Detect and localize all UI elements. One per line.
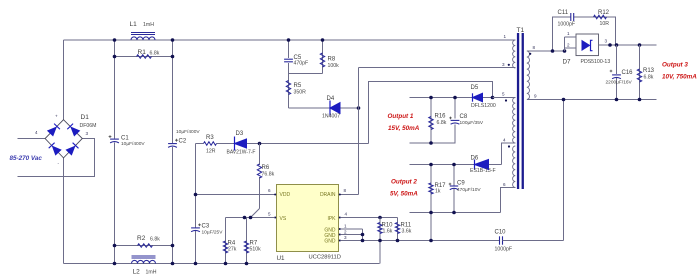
- svg-text:D5: D5: [471, 85, 479, 91]
- svg-text:VDD: VDD: [280, 192, 291, 198]
- wire GND pin stubs: [341, 228, 363, 230]
- svg-text:9: 9: [534, 94, 537, 99]
- svg-text:8: 8: [344, 188, 347, 193]
- node GND bus junctions: [378, 239, 382, 243]
- svg-text:C1: C1: [121, 136, 129, 142]
- svg-text:6: 6: [503, 182, 506, 187]
- svg-text:DFLS1200: DFLS1200: [471, 103, 496, 109]
- svg-text:470pF: 470pF: [294, 61, 309, 67]
- svg-text:100µF/35V: 100µF/35V: [460, 120, 484, 126]
- svg-text:1000pF: 1000pF: [558, 22, 576, 28]
- bridge diode NW: [47, 126, 57, 136]
- wire aux sense riser: [369, 82, 493, 144]
- wire output1 plus rail: [410, 97, 473, 99]
- wire VDD node vertical C3: [195, 144, 197, 228]
- svg-text:6.8k: 6.8k: [150, 51, 160, 57]
- svg-text:15V, 50mA: 15V, 50mA: [388, 125, 420, 132]
- svg-text:3: 3: [86, 131, 89, 136]
- svg-text:Output 3: Output 3: [662, 62, 688, 69]
- svg-text:R6: R6: [262, 165, 270, 171]
- svg-text:R2: R2: [137, 235, 146, 242]
- svg-text:D6: D6: [471, 156, 479, 162]
- svg-text:1: 1: [567, 31, 570, 36]
- svg-text:L1: L1: [130, 21, 138, 28]
- resistor R7: [244, 241, 248, 253]
- svg-text:85-270 Vac: 85-270 Vac: [10, 155, 43, 162]
- capacitor C8: [454, 98, 456, 119]
- svg-text:10µF/400V: 10µF/400V: [121, 141, 145, 147]
- resistor R5: [286, 81, 290, 95]
- svg-text:D3: D3: [236, 131, 244, 137]
- svg-text:C3: C3: [202, 224, 210, 230]
- resistor R10: [379, 218, 381, 264]
- svg-text:470µF/10V: 470µF/10V: [457, 187, 481, 193]
- wire B+ top rail: [64, 39, 516, 41]
- diode D5 DFLS1200: [473, 93, 483, 101]
- node output3 junctions: [615, 98, 619, 102]
- resistor R17: [430, 165, 432, 241]
- wire VDD row to U1: [196, 194, 277, 196]
- transformer winding pins 4-6: [513, 146, 516, 188]
- svg-text:C11: C11: [558, 10, 569, 16]
- wire secondary ground riser: [563, 100, 565, 241]
- resistor R6: [257, 164, 261, 178]
- svg-text:3.6k: 3.6k: [402, 229, 412, 235]
- svg-text:510k: 510k: [250, 247, 262, 253]
- wire R2 bypass rail: [115, 245, 173, 247]
- wire bridge - vertical to bottom rail: [63, 158, 65, 264]
- svg-text:U1: U1: [277, 255, 286, 262]
- node aux sense - pin5 junction: [491, 96, 495, 100]
- wire output2 return rail: [410, 212, 501, 214]
- wire AC input line 1: [18, 138, 46, 140]
- svg-text:100k: 100k: [328, 63, 340, 69]
- svg-text:10R: 10R: [600, 21, 610, 27]
- transformer primary winding pins 1-3: [513, 40, 516, 68]
- svg-text:4: 4: [503, 138, 506, 143]
- diode D3 BAV21W-7-F: [235, 139, 247, 148]
- wire D7 pins 1 2: [565, 36, 577, 38]
- wire C2 branch vertical: [172, 40, 174, 143]
- wire bridge + vertical: [63, 40, 65, 120]
- capacitor C3: [191, 227, 200, 229]
- svg-text:1.6k: 1.6k: [383, 229, 393, 235]
- svg-text:350R: 350R: [294, 90, 307, 96]
- svg-text:3: 3: [502, 62, 505, 67]
- svg-text:D1: D1: [81, 114, 90, 121]
- resistor R16: [430, 98, 432, 144]
- svg-text:1N4007: 1N4007: [322, 114, 340, 120]
- svg-text:1000pF: 1000pF: [495, 247, 513, 253]
- svg-text:DF06M: DF06M: [80, 123, 97, 129]
- svg-text:3: 3: [344, 235, 347, 240]
- svg-text:4: 4: [345, 212, 348, 217]
- node junctions on input rails: [113, 38, 117, 42]
- svg-text:C16: C16: [622, 70, 634, 76]
- wire C1 branch vertical: [114, 40, 116, 138]
- svg-text:4: 4: [35, 130, 38, 135]
- diode D7 PDS5100-13 package: [576, 34, 599, 56]
- diode D4 1N4007: [330, 103, 340, 114]
- svg-text:5: 5: [268, 212, 271, 217]
- svg-text:10µF/400V: 10µF/400V: [176, 129, 200, 135]
- wire drain vertical to transformer pin 3: [358, 68, 360, 195]
- svg-text:GND: GND: [324, 239, 336, 245]
- svg-text:IPK: IPK: [327, 216, 336, 222]
- svg-text:10µF/25V: 10µF/25V: [202, 230, 224, 236]
- svg-text:T1: T1: [517, 27, 525, 34]
- svg-text:6.8k: 6.8k: [437, 120, 447, 126]
- svg-text:R8: R8: [328, 57, 336, 63]
- wire D7 pin 3 output3 plus rail: [599, 44, 657, 46]
- transformer aux winding pins 5-4: [513, 98, 516, 144]
- capacitor C2: [168, 143, 177, 145]
- node ground rail junctions: [194, 262, 198, 266]
- bridge diode NE: [70, 126, 80, 136]
- capacitor C9: [453, 165, 455, 186]
- svg-text:D7: D7: [563, 59, 572, 66]
- svg-text:R3: R3: [206, 135, 214, 141]
- svg-text:R5: R5: [294, 83, 302, 89]
- transformer core: [517, 33, 519, 189]
- svg-text:6.8k: 6.8k: [644, 75, 654, 81]
- resistor R13: [639, 45, 641, 100]
- wire AC input line 2: [18, 139, 95, 177]
- svg-text:2: 2: [567, 43, 570, 48]
- U1 pin connection ticks: [274, 194, 276, 196]
- wire R6 branch with diagonal to VS: [259, 144, 261, 166]
- svg-text:8: 8: [533, 45, 536, 50]
- wire VS row: [226, 217, 275, 219]
- svg-text:D4: D4: [327, 96, 335, 102]
- resistor R4: [223, 241, 227, 253]
- svg-text:1mH: 1mH: [146, 270, 157, 276]
- wire R1 bypass rail: [115, 56, 173, 58]
- svg-text:6: 6: [268, 188, 271, 193]
- wire IPK row: [341, 217, 398, 219]
- transformer secondary winding pins 8-9: [527, 51, 530, 99]
- svg-text:VS: VS: [280, 216, 287, 222]
- resistor R1: [137, 55, 152, 59]
- node output2 junctions: [429, 163, 433, 167]
- svg-text:1: 1: [504, 34, 507, 39]
- svg-text:1: 1: [344, 224, 347, 229]
- node R6 tap junction: [258, 142, 262, 146]
- svg-text:C2: C2: [179, 139, 187, 145]
- capacitor C11: [570, 13, 572, 21]
- svg-text:76.8k: 76.8k: [262, 172, 275, 178]
- resistor R3: [204, 142, 217, 146]
- resistor R12: [594, 15, 607, 19]
- inductor L2: [132, 260, 156, 263]
- bridge diode SE: [66, 146, 76, 156]
- svg-text:10V, 750mA: 10V, 750mA: [662, 74, 697, 81]
- svg-text:12R: 12R: [206, 149, 216, 155]
- svg-text:R13: R13: [643, 68, 655, 74]
- wire C5 R8 snubber branch: [288, 40, 290, 58]
- wire output2 plus rail D6 row: [410, 164, 475, 166]
- svg-text:C9: C9: [457, 181, 465, 187]
- svg-text:C8: C8: [460, 114, 468, 120]
- svg-text:C10: C10: [495, 230, 507, 236]
- capacitor C5: [284, 58, 293, 60]
- wire R7 branch: [246, 218, 248, 264]
- svg-text:ES1B-13-F: ES1B-13-F: [470, 168, 496, 174]
- op-amp U1 UCC28911D body: [277, 185, 339, 252]
- svg-text:1mH: 1mH: [143, 22, 154, 28]
- svg-text:+: +: [55, 114, 58, 119]
- svg-text:1k: 1k: [435, 189, 441, 195]
- wire D4 row: [289, 107, 331, 109]
- resistor R8: [320, 53, 324, 67]
- svg-text:5V, 50mA: 5V, 50mA: [390, 191, 418, 198]
- capacitor C1: [110, 138, 119, 140]
- wire VDD feed row R3 D3: [196, 143, 204, 145]
- svg-text:6.8k: 6.8k: [150, 237, 160, 243]
- node drain-snubber junction: [357, 106, 361, 110]
- svg-text:2: 2: [344, 229, 347, 234]
- capacitor C16: [616, 45, 618, 74]
- capacitor C10: [499, 236, 501, 244]
- bridge rectifier D1 DF06M: [45, 120, 82, 158]
- svg-text:Output 1: Output 1: [388, 113, 414, 120]
- svg-text:3: 3: [605, 39, 608, 44]
- svg-text:DRAIN: DRAIN: [320, 192, 336, 198]
- resistor R2: [138, 244, 153, 248]
- resistor R11: [397, 218, 399, 241]
- bridge diode SW: [52, 146, 62, 156]
- wire output1 return rail: [410, 124, 456, 143]
- wire C11 R12 snubber loop: [553, 17, 616, 51]
- wire bottom rail: [64, 263, 380, 265]
- svg-text:Output 2: Output 2: [391, 179, 417, 186]
- svg-text:L2: L2: [133, 269, 141, 276]
- inductor L1: [131, 37, 155, 40]
- svg-text:BAV21W-7-F: BAV21W-7-F: [227, 150, 256, 156]
- svg-text:5: 5: [502, 92, 505, 97]
- svg-text:R16: R16: [435, 114, 447, 120]
- wire DRAIN stub: [339, 194, 359, 196]
- svg-text:R1: R1: [138, 49, 147, 56]
- diode D6 ES1B-13-F: [475, 160, 489, 170]
- svg-text:2200µF/16V: 2200µF/16V: [606, 80, 633, 86]
- svg-text:PDS5100-13: PDS5100-13: [581, 59, 611, 65]
- svg-text:R12: R12: [598, 10, 610, 16]
- svg-text:27k: 27k: [228, 247, 237, 253]
- svg-text:UCC28911D: UCC28911D: [309, 255, 341, 261]
